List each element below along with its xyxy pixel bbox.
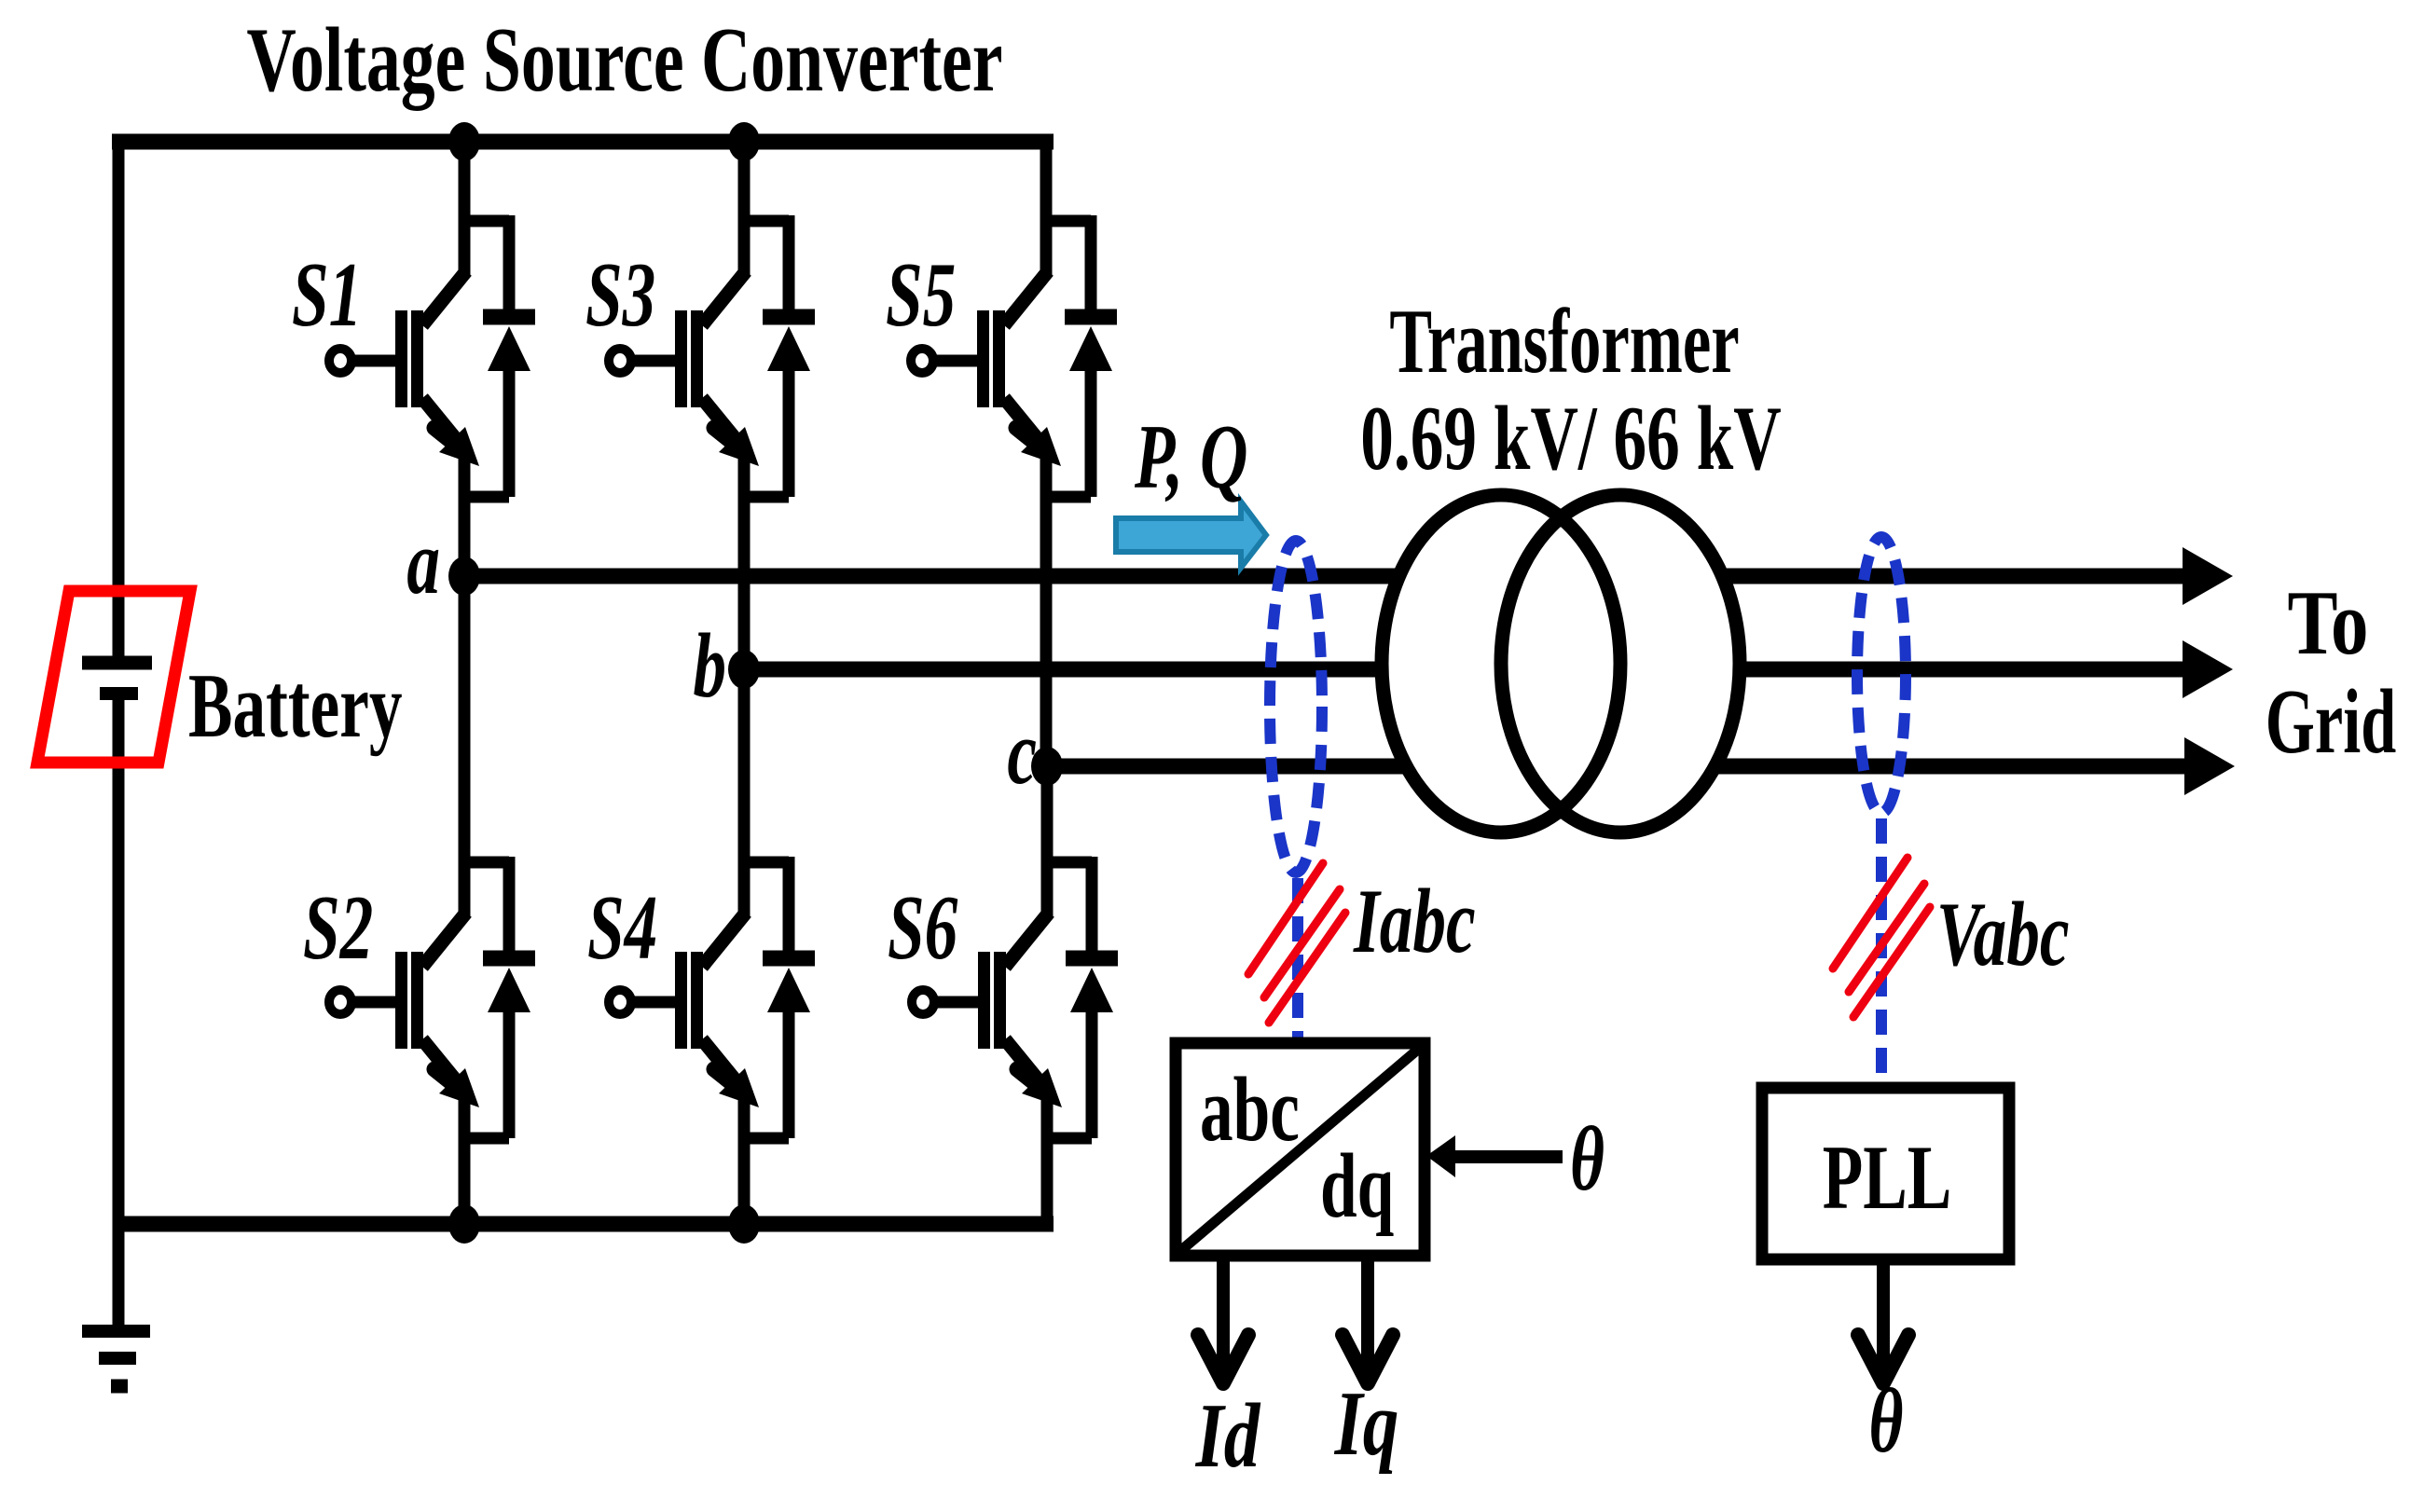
left DC bus wire (top section) xyxy=(113,134,125,663)
theta input arrow to abc/dq block xyxy=(1426,1135,1563,1177)
svg-text:S3: S3 xyxy=(585,243,655,346)
Id output arrow xyxy=(1198,1256,1248,1383)
node c dot xyxy=(1031,747,1063,786)
left DC bus wire (bottom section) xyxy=(113,694,125,1224)
ground symbol xyxy=(82,1331,150,1386)
svg-text:P, Q: P, Q xyxy=(1134,405,1247,508)
grid arrowhead phase a xyxy=(2183,547,2233,605)
P,Q power flow block arrow xyxy=(1116,502,1266,568)
svg-text:Id: Id xyxy=(1195,1385,1261,1487)
svg-text:c: c xyxy=(1007,701,1037,804)
IGBT switch S4 with antiparallel diode xyxy=(609,856,815,1149)
svg-text:0.69 kV/ 66 kV: 0.69 kV/ 66 kV xyxy=(1360,387,1781,489)
node a dot xyxy=(448,557,480,596)
PLL block xyxy=(1762,1088,2009,1259)
transformer primary winding xyxy=(1382,495,1620,832)
svg-text:θ: θ xyxy=(1570,1107,1605,1210)
wire: S5 collector to top rail xyxy=(1040,136,1053,224)
grid arrowhead phase c xyxy=(2184,737,2235,795)
wire: S2 collector to node a xyxy=(459,576,471,867)
IGBT switch S1 with antiparallel diode xyxy=(329,214,535,508)
battery red enclosure parallelogram xyxy=(37,591,190,763)
junction dot: top rail / S3 xyxy=(728,122,760,161)
svg-text:S2: S2 xyxy=(303,876,373,979)
wire: S1 collector to top rail xyxy=(459,136,471,224)
wire: S6 emitter to bottom rail xyxy=(1041,1137,1054,1224)
three-phase slash marks (Vabc) xyxy=(1833,858,1930,1017)
svg-text:PLL: PLL xyxy=(1823,1126,1952,1229)
wire: S2 emitter to bottom rail xyxy=(459,1137,471,1224)
wire: S4 emitter to bottom rail xyxy=(738,1137,751,1224)
svg-text:S1: S1 xyxy=(292,243,362,346)
transformer winding fills (hide phase lines inside) xyxy=(1382,495,1740,832)
wire: S1 emitter to node a xyxy=(459,500,471,576)
ground stem wire xyxy=(113,1224,125,1331)
three-phase slash marks (Iabc) xyxy=(1248,863,1345,1023)
junction dot: bottom rail / S4 xyxy=(728,1204,760,1244)
IGBT switch S2 with antiparallel diode xyxy=(329,856,535,1149)
svg-text:Voltage Source Converter: Voltage Source Converter xyxy=(246,8,1002,111)
svg-text:θ: θ xyxy=(1868,1369,1903,1472)
svg-text:a: a xyxy=(406,511,440,613)
svg-text:b: b xyxy=(693,614,726,717)
current sensor dashed lead xyxy=(1292,878,1303,1043)
wire: S5 emitter to node c xyxy=(1040,500,1053,766)
voltage sensor dashed lead xyxy=(1876,818,1887,1088)
grid arrowhead phase b xyxy=(2183,640,2233,698)
node b dot xyxy=(728,650,760,689)
svg-text:dq: dq xyxy=(1320,1134,1394,1237)
IGBT switch S5 with antiparallel diode xyxy=(911,214,1117,508)
phase line a xyxy=(464,569,2193,584)
junction dot: bottom rail / S2 xyxy=(448,1204,480,1244)
voltage sensor ellipse (VT) xyxy=(1857,537,1906,813)
svg-text:S4: S4 xyxy=(587,876,657,979)
svg-text:Iq: Iq xyxy=(1334,1373,1399,1475)
battery long plate xyxy=(82,656,152,670)
wire: S6 collector to node c xyxy=(1041,766,1054,867)
bottom DC bus rail xyxy=(118,1216,1054,1232)
svg-text:S5: S5 xyxy=(886,243,956,346)
svg-text:Vabc: Vabc xyxy=(1936,883,2070,985)
svg-text:Grid: Grid xyxy=(2266,671,2396,773)
current sensor ellipse (CT) xyxy=(1270,541,1322,873)
battery short plate xyxy=(100,687,138,700)
svg-text:Iabc: Iabc xyxy=(1353,870,1475,972)
phase line c xyxy=(1047,759,2193,775)
svg-text:To: To xyxy=(2287,570,2368,674)
phase line b xyxy=(744,662,2193,678)
PLL theta output arrow xyxy=(1858,1259,1908,1383)
abc to dq transform block xyxy=(1176,1043,1425,1256)
IGBT switch S6 with antiparallel diode xyxy=(912,856,1118,1149)
junction dot: top rail / S1 xyxy=(448,122,480,161)
wire: S3 collector to top rail xyxy=(738,136,751,224)
top DC bus rail xyxy=(112,134,1054,150)
IGBT switch S3 with antiparallel diode xyxy=(609,214,815,508)
svg-text:Transformer: Transformer xyxy=(1389,291,1739,392)
transformer secondary winding xyxy=(1501,495,1740,832)
wire: S4 collector to node b xyxy=(738,669,751,867)
wire: S3 emitter to node b xyxy=(738,500,751,669)
Iq output arrow xyxy=(1343,1256,1393,1383)
svg-text:Battery: Battery xyxy=(188,654,403,757)
svg-text:abc: abc xyxy=(1200,1058,1300,1161)
svg-text:S6: S6 xyxy=(888,876,958,979)
